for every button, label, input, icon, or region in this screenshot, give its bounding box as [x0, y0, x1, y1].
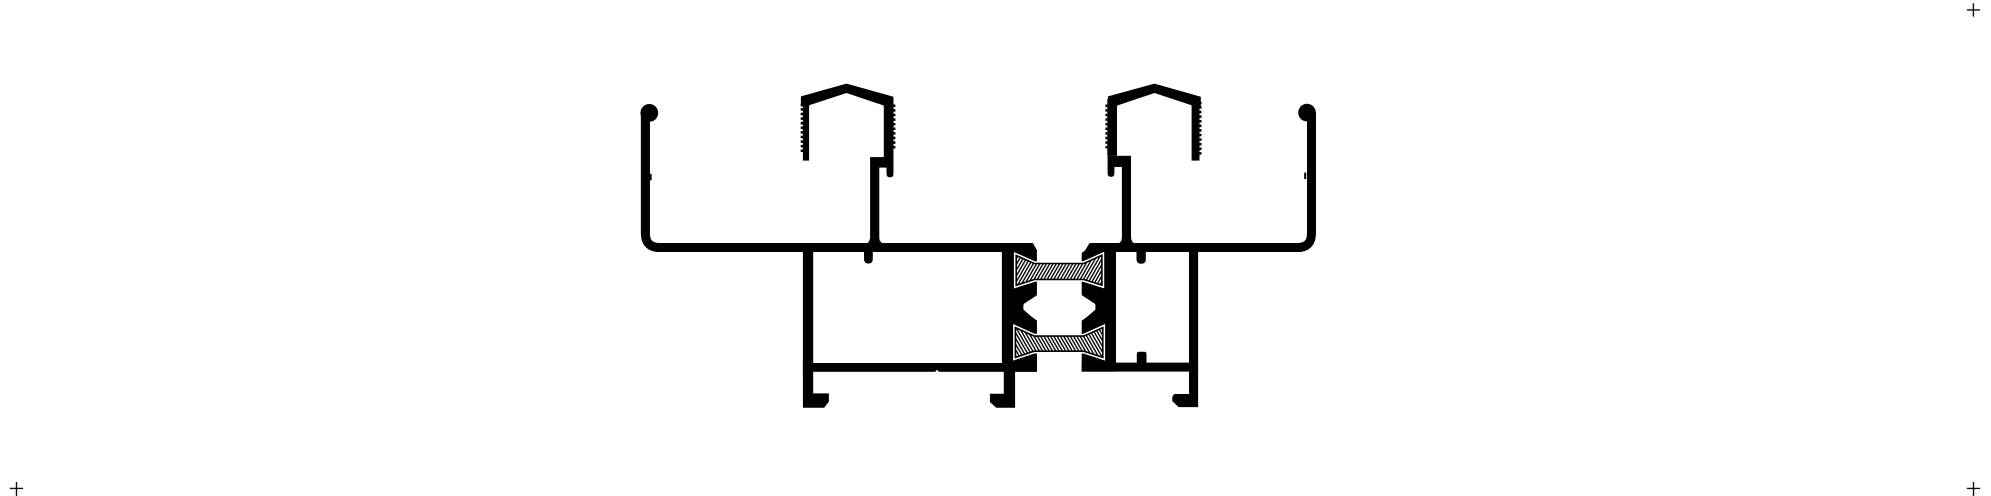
glazing bead 2 left leg serration	[1105, 105, 1107, 108]
glazing bead 2 junction block	[1108, 156, 1131, 167]
left hook rib bump	[650, 174, 652, 181]
left hook ball end	[640, 104, 658, 122]
glazing bead 2 right leg serration	[1200, 102, 1202, 105]
right frame outer hook wall	[1250, 112, 1312, 248]
glazing bead 1 drip stub below flange	[864, 252, 873, 264]
glazing bead 1 right leg	[884, 99, 894, 158]
registration mark bottom-right	[1967, 482, 1980, 496]
glazing bead 2 drip stub below flange	[1137, 252, 1146, 264]
right body screw boss on bottom wall	[1137, 352, 1147, 364]
glazing bead 1 left leg serration	[801, 104, 803, 107]
central wall left (outer profile jaw mass)	[1002, 243, 1037, 372]
glazing bead 2 top band	[1108, 84, 1201, 107]
glazing bead 1 stem root fillets	[865, 238, 870, 245]
glazing bead 1 right leg serration	[894, 105, 896, 108]
registration mark bottom-left	[10, 482, 23, 496]
thermal break bar upper (hatched)	[1016, 255, 1102, 285]
registration mark top-right	[1967, 3, 1980, 16]
thermal break bar lower (hatched)	[1015, 328, 1102, 358]
glazing bead 1 stem	[870, 167, 879, 245]
left body right wall lower with foot	[990, 371, 1015, 408]
central wall right (inner profile jaw mass)	[1082, 243, 1116, 372]
glazing bead 2 stem	[1122, 166, 1131, 245]
right hook ball end	[1298, 104, 1316, 122]
glazing bead 1 junction block	[870, 157, 893, 168]
glazing bead 2 left leg	[1107, 99, 1117, 156]
right body bottom wall	[1082, 363, 1198, 372]
top flange right segment	[1085, 243, 1302, 252]
left frame outer hook wall	[645, 112, 700, 248]
glazing bead 1 top band	[801, 84, 894, 107]
identification notch	[935, 370, 939, 372]
left body left wall with foot	[803, 247, 829, 408]
cavity bulge right	[1080, 294, 1095, 322]
glazing bead 1 left leg	[803, 99, 809, 161]
thermal break bar lower clearance gap	[1015, 328, 1102, 358]
cavity bulge left	[1023, 294, 1038, 322]
top flange left segment	[657, 243, 1037, 252]
left body bottom wall	[803, 363, 1037, 372]
glazing bead 2 right leg	[1192, 99, 1200, 161]
glazing bead 2 stem root fillets	[1117, 238, 1122, 245]
right hook rib bump	[1304, 173, 1306, 180]
glazing bead 1 retaining hooklet	[887, 167, 894, 177]
right body right wall with foot	[1172, 247, 1198, 407]
glazing bead 2 retaining hooklet	[1108, 166, 1115, 177]
thermal break bar upper clearance gap	[1016, 255, 1102, 285]
